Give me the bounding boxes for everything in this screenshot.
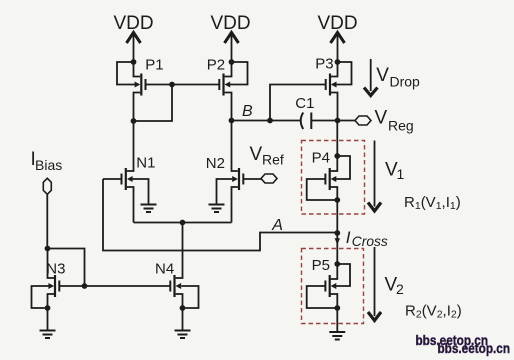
svg-text:N1: N1 — [136, 155, 155, 172]
svg-text:1: 1 — [397, 166, 405, 182]
svg-text:P5: P5 — [312, 257, 330, 274]
label I_Cross — [346, 228, 388, 249]
svg-text:B: B — [242, 103, 253, 120]
wire differential pair tail — [134, 222, 232, 224]
svg-text:P3: P3 — [315, 56, 333, 73]
svg-text:R2(V2,I2): R2(V2,I2) — [405, 302, 462, 320]
node P1 gate/drain junction — [169, 82, 175, 88]
node C1/P3-gate tap — [267, 118, 273, 124]
current direction arrow I_Cross — [335, 238, 340, 245]
svg-text:2: 2 — [396, 281, 404, 297]
node P1 source — [131, 59, 137, 65]
svg-text:N2: N2 — [206, 155, 225, 172]
transistor N4 — [155, 223, 199, 331]
node N3/N4 gate rail junction — [82, 283, 88, 289]
wire N3 diode connection — [48, 249, 85, 287]
node P4 source — [334, 153, 340, 159]
svg-text:V: V — [250, 144, 263, 165]
transistor P1 — [117, 57, 164, 122]
capacitor C1 — [295, 95, 337, 129]
svg-text:P1: P1 — [145, 57, 163, 74]
node P1 drain — [131, 118, 137, 124]
transistor P5 — [307, 257, 350, 308]
svg-text:bbs.eetop.cn: bbs.eetop.cn — [438, 341, 511, 356]
svg-text:V: V — [376, 65, 389, 86]
wire P5 to ground — [336, 308, 338, 331]
wire P4 to I_Cross node — [336, 200, 338, 233]
wire V_Reg node to P4 — [336, 121, 338, 157]
svg-text:VDD: VDD — [210, 13, 250, 34]
node P3 source — [335, 59, 341, 65]
arrow V1 — [368, 141, 405, 212]
transistor N2 — [206, 121, 261, 223]
node B — [229, 118, 235, 124]
svg-text:N3: N3 — [46, 261, 65, 278]
ground P5 — [329, 332, 345, 340]
port V_Ref — [250, 144, 284, 183]
svg-text:Ref: Ref — [262, 152, 284, 168]
ground N3 — [40, 331, 56, 339]
ground N4 — [175, 331, 191, 339]
arrow V2 — [368, 247, 404, 321]
node tail — [180, 220, 186, 226]
wire N1 gate feedback to node A — [103, 179, 337, 251]
node I_Cross — [334, 230, 340, 236]
node P5 drain — [334, 305, 340, 311]
wire P1 diode connection — [134, 85, 173, 122]
transistor P4 — [307, 150, 350, 201]
transistor P3 — [315, 56, 351, 121]
wire V_Reg node to port — [338, 120, 356, 122]
node P2 source — [229, 59, 235, 65]
ground N1 bulk — [141, 205, 157, 213]
arrow V_Drop — [364, 59, 420, 96]
wire P3 gate to node B — [270, 85, 326, 121]
red dashed box R1 — [302, 141, 365, 215]
transistor N3 — [32, 249, 85, 331]
transistor P2 — [207, 57, 248, 121]
svg-text:Drop: Drop — [390, 74, 421, 90]
port V_Reg — [355, 108, 414, 134]
svg-text:P2: P2 — [207, 57, 225, 74]
svg-text:Reg: Reg — [388, 118, 414, 134]
node I_Bias/N3 drain — [45, 246, 51, 252]
transistor N1 — [103, 121, 155, 223]
svg-text:N4: N4 — [155, 261, 174, 278]
wire N3-N4 gate rail — [85, 285, 171, 287]
node N3 source/bulk — [45, 305, 51, 311]
label I_Bias — [31, 149, 63, 173]
red dashed box R2 — [302, 249, 364, 324]
svg-text:R1(V1,I1): R1(V1,I1) — [404, 194, 461, 212]
wire I_Bias port to N3 — [46, 194, 48, 248]
svg-text:I: I — [346, 228, 351, 247]
port I_Bias — [43, 178, 51, 194]
node N4 source/bulk — [180, 305, 186, 311]
svg-text:C1: C1 — [295, 95, 314, 112]
wire P1-P2 gate rail — [146, 84, 220, 86]
svg-text:Bias: Bias — [35, 157, 62, 173]
power VDD 2 — [210, 13, 250, 62]
ground N2 bulk — [209, 205, 225, 213]
svg-text:P4: P4 — [312, 150, 330, 167]
svg-text:A: A — [271, 217, 283, 234]
node V_Reg — [335, 118, 341, 124]
node P4 drain — [334, 197, 340, 203]
power VDD 3 — [317, 13, 357, 62]
wire I_Cross to P5 — [336, 233, 338, 264]
svg-text:V: V — [375, 108, 388, 129]
wire node B to C1 — [232, 120, 301, 122]
node P5 source — [334, 261, 340, 267]
power VDD 1 — [113, 13, 153, 62]
svg-text:Cross: Cross — [352, 234, 388, 249]
